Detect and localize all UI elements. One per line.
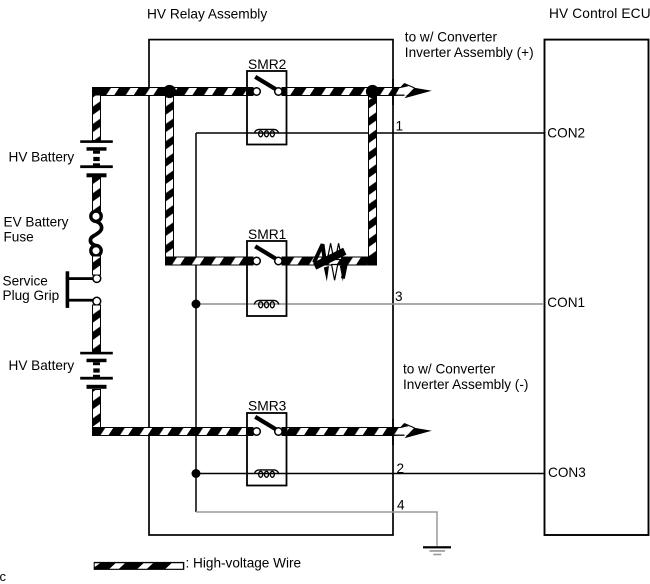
arrow to converter inverter assembly (+)	[393, 83, 432, 98]
svg-text:4: 4	[397, 498, 405, 513]
svg-text:EV Battery: EV Battery	[4, 215, 69, 230]
wire: high-voltage SMR1 to precharge resistor	[282, 257, 377, 265]
relay SMR3 box	[247, 413, 287, 486]
relay SMR2 switch contact pins	[253, 88, 260, 95]
EV battery fuse	[90, 211, 101, 256]
junction node: wire 2 / coil return	[192, 469, 201, 478]
svg-text:CON3: CON3	[548, 465, 586, 480]
wire 2: SMR3 coil line to CON3	[196, 473, 544, 475]
relay SMR3 switch contact pins	[253, 428, 260, 435]
svg-text:to w/ Converter: to w/ Converter	[403, 362, 496, 377]
svg-text:3: 3	[395, 289, 403, 304]
wire: high-voltage top rail (SMR2 to inverter arrow)	[282, 88, 407, 96]
HV Relay Assembly box right edge over arrows	[392, 79, 394, 445]
svg-text:SMR3: SMR3	[248, 399, 287, 414]
relay SMR3 coil	[254, 470, 279, 477]
svg-text:SMR1: SMR1	[248, 227, 286, 242]
wire: high-voltage bottom rail (SMR3 to inverter arrow)	[282, 428, 407, 436]
HV battery 2 (lower)	[80, 352, 113, 389]
junction node: top rail / precharge branch right	[366, 85, 379, 98]
wire 3: SMR1 coil line to CON1	[196, 303, 544, 305]
HV Control ECU enclosure box	[545, 40, 649, 535]
svg-text:CON2: CON2	[547, 125, 585, 140]
svg-text:1: 1	[396, 119, 404, 134]
HV Relay Assembly enclosure box	[149, 40, 393, 535]
wire: high-voltage precharge branch vertical (x=372.5)	[369, 92, 377, 266]
relay SMR2 box	[247, 71, 287, 145]
svg-text:HV Relay Assembly: HV Relay Assembly	[147, 6, 267, 21]
arrow to converter inverter assembly (-)	[393, 423, 432, 438]
svg-text:CON1: CON1	[547, 295, 585, 310]
svg-text:Plug Grip: Plug Grip	[3, 288, 60, 303]
wire: high-voltage battery 2 down to bottom rail	[93, 390, 101, 436]
wire: high-voltage left rail down to battery 1	[93, 88, 101, 141]
svg-text:to w/ Converter: to w/ Converter	[405, 30, 498, 45]
HV battery 1 (upper)	[80, 140, 113, 177]
wire: high-voltage bottom rail (battery - to SMR3)	[93, 428, 253, 436]
wire: high-voltage precharge branch vertical (x=170)	[166, 92, 174, 266]
service plug grip	[66, 271, 101, 308]
wire 4: coil return to chassis ground	[196, 512, 437, 546]
svg-text:HV Control ECU: HV Control ECU	[549, 6, 650, 21]
relay SMR1 coil	[254, 300, 279, 307]
wire: high-voltage battery 1 to fuse	[93, 177, 101, 212]
wire: high-voltage top rail (battery + to SMR2)	[93, 88, 253, 96]
relay SMR1 box	[247, 241, 287, 316]
relay SMR1 switch blade	[255, 246, 277, 259]
svg-text:Fuse: Fuse	[4, 230, 34, 245]
wire: relay coil common return (vertical, x=196)	[195, 133, 197, 512]
svg-text:HV Battery: HV Battery	[9, 149, 75, 164]
svg-text:c: c	[0, 569, 7, 584]
junction node: wire 3 / coil return	[192, 300, 201, 309]
resistor R (precharge) zigzag on high-voltage wire	[313, 243, 347, 281]
relay SMR2 coil	[254, 129, 279, 136]
svg-text:2: 2	[397, 461, 405, 476]
svg-text:: High-voltage Wire: : High-voltage Wire	[186, 555, 302, 570]
svg-text:Service: Service	[3, 273, 48, 288]
wire: high-voltage service plug to battery 2	[93, 305, 101, 352]
wire: high-voltage fuse to service plug	[93, 256, 101, 275]
svg-text:HV Battery: HV Battery	[9, 358, 75, 373]
legend: high-voltage wire sample bar	[94, 562, 184, 569]
wire 1: SMR2 coil line to CON2	[196, 132, 544, 134]
relay SMR2 switch blade	[255, 77, 277, 90]
svg-text:Inverter Assembly (+): Inverter Assembly (+)	[405, 45, 534, 60]
svg-text:Inverter Assembly (-): Inverter Assembly (-)	[403, 377, 528, 392]
junction node: top rail / precharge branch left	[163, 85, 176, 98]
wire: high-voltage precharge branch to SMR1	[166, 257, 253, 265]
svg-text:SMR2: SMR2	[248, 57, 286, 72]
ground	[423, 546, 451, 555]
relay SMR1 switch contact pins	[253, 257, 260, 264]
relay SMR3 switch blade	[255, 417, 277, 430]
